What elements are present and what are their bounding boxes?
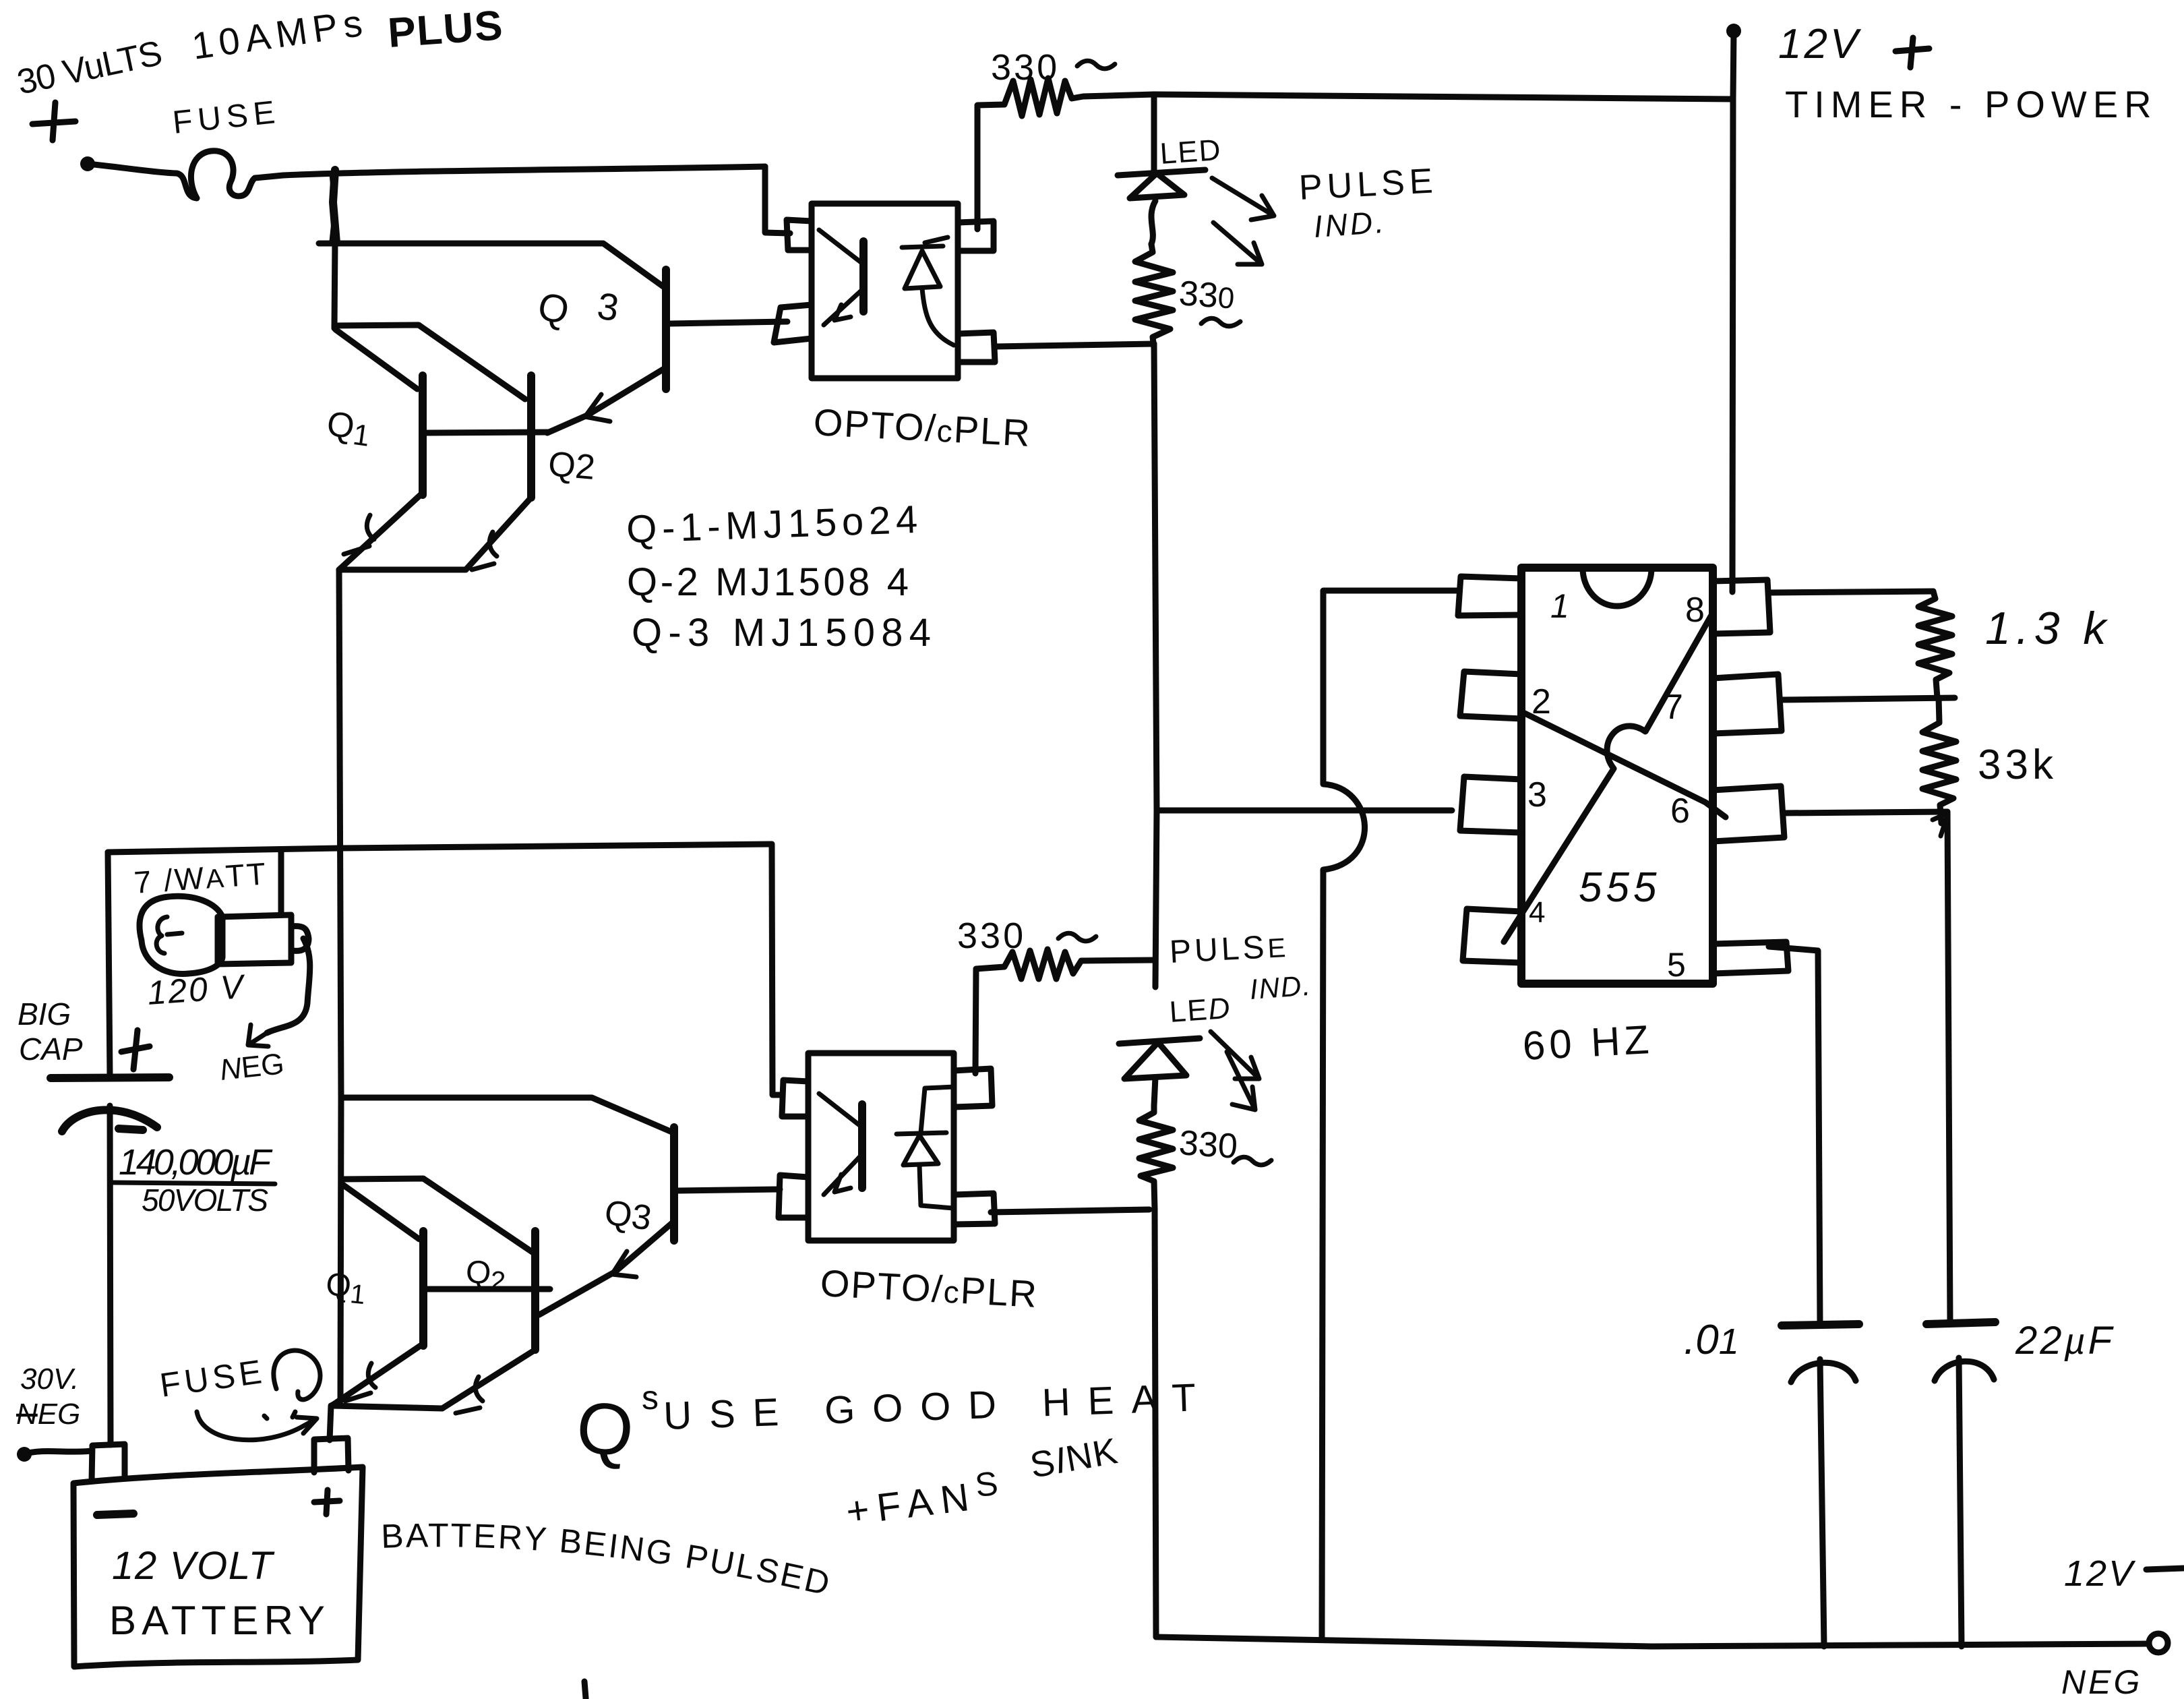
wire 12V top rail <box>1154 94 1733 99</box>
label PULSE IND. <box>1298 161 1438 244</box>
wire pin6 down to 22uF <box>1947 812 1950 1322</box>
FUSE question arrow <box>197 1412 317 1440</box>
transistor Q3 lower base bar <box>670 1127 678 1241</box>
label Q-2 MJ15024 <box>627 560 909 604</box>
svg-text:330: 330 <box>957 916 1026 956</box>
30V neg terminal dot and wire <box>17 1447 92 1462</box>
svg-text:IND.: IND. <box>1312 204 1387 244</box>
transistor Q2 lower collector wire <box>341 1179 533 1253</box>
opto U2 pin tab top-right <box>954 1069 992 1107</box>
label 22uF <box>2015 1319 2115 1363</box>
wire 12V down to 555 pin8 <box>1732 99 1733 592</box>
555 pin tab 4 <box>1463 909 1521 963</box>
label FUSE <box>171 94 277 141</box>
battery minus sign <box>97 1514 133 1515</box>
555 pin tab 8 <box>1713 580 1770 634</box>
label LED upper <box>1159 133 1223 171</box>
lamp bulb 120V <box>140 851 309 974</box>
wire rail down to battery plus <box>330 1098 341 1440</box>
label 60 HZ <box>1521 1017 1654 1069</box>
battery BT1 body <box>73 1467 363 1667</box>
12V+ terminal <box>1726 24 1741 99</box>
svg-text:12V: 12V <box>2064 1553 2136 1594</box>
resistor R2 330 vertical <box>1135 244 1173 348</box>
capacitor C1 140000uF plates <box>51 1077 169 1131</box>
label 555 <box>1579 864 1660 911</box>
fuse F1 and wire to opto <box>88 151 765 198</box>
wire bulb rail down to opto U2 pin1 <box>772 844 782 1095</box>
label 330 ohm top <box>991 47 1115 88</box>
label 330 lower <box>1178 1123 1271 1166</box>
svg-text:555: 555 <box>1579 864 1660 911</box>
resistor R1 330 top <box>977 78 1154 229</box>
transistor Q1 base bar <box>419 376 427 495</box>
555 pin tab 7 <box>1713 674 1782 734</box>
resistor R6 330 lower vertical <box>1139 1106 1173 1209</box>
bottom negative rail <box>1156 1637 2149 1646</box>
transistor Q1 lower base bar <box>419 1231 427 1346</box>
transistor Q3 lower collector wire <box>341 1098 673 1133</box>
svg-text:1.3 k: 1.3 k <box>1985 603 2111 654</box>
svg-text:5: 5 <box>1667 946 1686 984</box>
transistor Q1 collector wire <box>336 330 417 389</box>
label Q-1-MJ15024 <box>626 498 918 552</box>
capacitor C3 22uF <box>1927 1322 1995 1646</box>
svg-text:IND.: IND. <box>1248 970 1312 1005</box>
transistor Q3 collector wire <box>319 243 666 289</box>
transistor Q3 emitter with arrow <box>547 369 664 433</box>
label Q3 lower <box>602 1193 654 1238</box>
emitter link wire <box>339 567 466 573</box>
svg-text:LED: LED <box>1168 992 1232 1029</box>
label 12V minus <box>2064 1553 2183 1594</box>
555 pin numbers <box>1527 587 1705 984</box>
transistor Q3 lower emitter with arrow <box>539 1223 672 1315</box>
wire 555 pin5 down to .01 cap <box>1769 947 1820 1324</box>
svg-text:12 VOLT: 12 VOLT <box>112 1544 275 1588</box>
svg-text:Q-2 MJ1508 4: Q-2 MJ1508 4 <box>627 560 909 604</box>
555 internal diagonal with hop <box>1504 616 1711 942</box>
transistor Q1 lower emitter with arrow <box>332 1344 423 1406</box>
sense column lower segment <box>1155 1209 1156 1637</box>
label OPTO/CPLR upper <box>812 400 1032 454</box>
svg-text:Q: Q <box>573 1385 638 1472</box>
svg-text:.01: .01 <box>1684 1317 1739 1363</box>
opto-coupler U1 body <box>812 204 958 378</box>
label Q1 lower <box>324 1266 367 1310</box>
wire top rail down to opto U1 pin1 <box>765 167 790 233</box>
transistor Q2 base bar <box>527 376 535 498</box>
svg-text:8: 8 <box>1685 591 1705 630</box>
wire junction down to upper rail (scribbled) <box>332 170 336 243</box>
svg-text:3: 3 <box>1527 775 1547 814</box>
svg-text:PULSE: PULSE <box>1298 161 1438 208</box>
battery neg tab <box>92 1444 125 1481</box>
base link wire lower Q1-Q2 <box>423 1286 550 1292</box>
transistor Q2 emitter with arrow <box>466 498 531 570</box>
label Q2 <box>547 444 597 487</box>
stray pen mark bottom <box>584 1681 586 1698</box>
wire 555 pin3 to sense column <box>1157 808 1452 814</box>
opto U2 internal LED <box>897 1087 954 1208</box>
label 330 ohm lower resistor <box>957 916 1096 956</box>
wire opto U1 output to LED column <box>995 344 1154 347</box>
svg-text:22µF: 22µF <box>2015 1319 2115 1363</box>
svg-text:120 V: 120 V <box>146 967 247 1012</box>
label NEG bulb <box>218 1047 286 1087</box>
transistor Q2 collector wire <box>334 325 525 399</box>
bulb NEG lead wire with arrow <box>248 938 310 1046</box>
svg-text:33k: 33k <box>1978 742 2057 788</box>
label NEG bottom <box>2061 1663 2142 1699</box>
transistor Q3 lower base wire to opto <box>678 1189 780 1191</box>
LED D1 pulse indicator <box>1118 94 1205 244</box>
opto U2 pin tab top-left <box>782 1080 808 1116</box>
opto U2 pin tab bottom-right <box>954 1193 995 1224</box>
555 pin tab 6 <box>1713 786 1784 841</box>
svg-text:BIG: BIG <box>18 996 71 1032</box>
555 pin tab 5 <box>1713 942 1788 974</box>
svg-text:140,000µF: 140,000µF <box>119 1142 273 1183</box>
label +FANS <box>843 1464 1002 1534</box>
transistor Q2 lower emitter with arrow <box>442 1350 535 1413</box>
transistor Q1 emitter with arrow <box>339 493 423 570</box>
LED D2 light arrows <box>1211 1032 1259 1110</box>
svg-text:1: 1 <box>1550 587 1569 625</box>
plus terminal sign <box>32 102 75 140</box>
label LED lower <box>1168 992 1232 1029</box>
label 140,000uF 50VOLTS <box>113 1142 275 1218</box>
LED D1 light arrows <box>1212 178 1274 264</box>
input terminal dot <box>80 156 95 171</box>
resistor R4 33k <box>1922 698 1956 823</box>
middle rail vertical wire <box>339 570 341 1098</box>
label 30 VOLTS 10AMPS PLUS <box>13 1 504 102</box>
svg-text:12V: 12V <box>1778 21 1862 67</box>
opto U1 pin tab top-left <box>787 220 812 250</box>
wire bulb box left side <box>108 852 110 1076</box>
wire bulb top rail <box>108 844 772 852</box>
wire cap to battery neg <box>110 1106 111 1445</box>
label 1.3 k <box>1985 603 2111 654</box>
opto U1 internal phototransistor <box>819 230 863 325</box>
svg-text:Q-3 MJ15084: Q-3 MJ15084 <box>632 611 931 655</box>
label 120 V <box>146 967 247 1012</box>
label 30V. NEG <box>16 1363 80 1431</box>
svg-text:CAP: CAP <box>19 1032 83 1067</box>
svg-text:Q3: Q3 <box>602 1193 654 1238</box>
label Qs USE GOOD HEAT <box>573 1375 1196 1472</box>
opto U1 pin tab top-right <box>958 221 994 251</box>
opto U1 internal LED <box>902 237 954 345</box>
label Q2 lower <box>464 1254 508 1296</box>
label SINK <box>1027 1431 1120 1486</box>
label 33k <box>1978 742 2057 788</box>
big cap plus sign <box>121 1030 150 1069</box>
emitter link wire lower <box>332 1406 442 1408</box>
capacitor C2 .01 <box>1782 1324 1859 1646</box>
svg-text:TIMER - POWER: TIMER - POWER <box>1785 83 2158 125</box>
resistor R5 330 lower horizontal <box>975 949 1153 1073</box>
opto U1 pin tab bottom-left <box>774 305 812 342</box>
battery pos tab <box>314 1438 348 1472</box>
wire 555 pin1 left and down with hop <box>1322 591 1457 1638</box>
555 pin tab 3 <box>1460 777 1521 833</box>
label PULSE IND lower <box>1169 928 1313 1005</box>
opto U2 pin tab bottom-left <box>779 1175 808 1218</box>
svg-text:NEG: NEG <box>218 1047 286 1087</box>
transistor Q3 base wire to opto <box>670 322 787 324</box>
label Q-3 MJ15084 <box>632 611 931 655</box>
opto U2 internal phototransistor <box>819 1094 862 1195</box>
label OPTO/cPLR lower <box>819 1261 1039 1315</box>
svg-text:NEG: NEG <box>2061 1663 2142 1699</box>
svg-text:s: s <box>642 1379 659 1417</box>
label FUSE ? <box>158 1350 320 1417</box>
svg-text:50VOLTS: 50VOLTS <box>142 1183 268 1218</box>
label BATTERY <box>109 1598 325 1643</box>
label .01 <box>1684 1317 1739 1363</box>
label 12 VOLT <box>112 1544 275 1588</box>
battery plus sign <box>314 1490 340 1514</box>
label BIG CAP <box>18 996 83 1067</box>
svg-text:60 HZ: 60 HZ <box>1521 1017 1654 1069</box>
wire 555 pin7 to resistor joint <box>1782 698 1955 700</box>
LED D2 pulse indicator <box>1119 1038 1200 1106</box>
label 12V + <box>1778 21 1929 67</box>
label 330 under LED1 <box>1178 274 1240 326</box>
label Q 3 <box>534 284 621 333</box>
opto-coupler U2 body <box>808 1053 954 1241</box>
555 pin tab 1 <box>1458 576 1521 616</box>
svg-text:Q2: Q2 <box>547 444 597 487</box>
transistor Q3 base bar <box>662 270 670 389</box>
12V neg terminal ring <box>2149 1634 2168 1652</box>
svg-text:330: 330 <box>1178 1123 1239 1166</box>
opto U1 pin tab bottom-right <box>958 332 995 362</box>
svg-text:30V.: 30V. <box>20 1363 79 1396</box>
main vertical sense wire <box>1154 344 1157 987</box>
upper collector rail <box>334 241 335 328</box>
transistor Q2 lower base bar <box>531 1231 539 1350</box>
resistor R3 1.3k <box>1918 591 1952 698</box>
wire opto U2 output to sense column <box>991 1210 1149 1212</box>
label BATTERY BEING PULSED <box>380 1516 835 1603</box>
svg-text:NEG: NEG <box>16 1398 80 1431</box>
555 pin tab 2 <box>1460 672 1521 719</box>
555 timer U3 body <box>1521 568 1713 984</box>
555 line pin2 to pin6 <box>1522 712 1726 817</box>
label Q1 <box>324 404 373 452</box>
svg-text:6: 6 <box>1670 792 1690 831</box>
label 7 1WATT <box>133 856 269 900</box>
label TIMER - POWER <box>1785 83 2158 125</box>
wire 555 pin6 junction <box>1783 812 1948 836</box>
svg-text:PLUS: PLUS <box>386 2 504 57</box>
wire 555 pin8 to resistor 1.3k <box>1770 591 1933 593</box>
transistor Q1 lower collector wire <box>342 1184 419 1239</box>
svg-text:LED: LED <box>1159 133 1223 171</box>
base link wire Q1-Q2 <box>423 432 549 433</box>
